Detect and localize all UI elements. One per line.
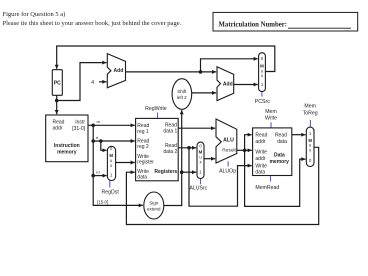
svg-text:memory: memory (57, 150, 77, 156)
svg-text:data 2: data 2 (163, 149, 177, 155)
svg-text:RegWrite: RegWrite (145, 106, 167, 112)
svg-text:[31-0]: [31-0] (72, 126, 85, 132)
svg-text:Data: Data (274, 153, 285, 159)
svg-text:Read: Read (53, 120, 65, 126)
svg-text:extend: extend (147, 207, 161, 212)
svg-text:reg 2: reg 2 (137, 144, 149, 150)
svg-text:Write: Write (255, 149, 267, 155)
svg-text:ToReg: ToReg (303, 110, 318, 116)
svg-text:data 1: data 1 (163, 129, 177, 135)
svg-text:PC: PC (54, 81, 61, 87)
svg-text:addr: addr (255, 156, 265, 162)
svg-text:Matriculation Number:: Matriculation Number: (219, 22, 288, 29)
svg-text:Add: Add (114, 68, 124, 74)
svg-text:Write: Write (265, 115, 277, 121)
svg-text:left 2: left 2 (177, 95, 187, 100)
svg-text:Shift: Shift (177, 89, 187, 94)
svg-text:4: 4 (91, 80, 94, 86)
svg-text:rt: rt (96, 135, 99, 140)
svg-text:Figure for Question 5 a): Figure for Question 5 a) (3, 11, 66, 18)
svg-text:ALUOp: ALUOp (219, 169, 236, 175)
svg-text:data: data (277, 139, 287, 145)
svg-text:data: data (255, 170, 265, 176)
svg-text:addr: addr (53, 126, 63, 132)
svg-text:data: data (137, 175, 147, 181)
svg-text:Mem: Mem (265, 109, 277, 115)
svg-text:Read: Read (275, 133, 287, 139)
svg-text:Please tie this sheet to your: Please tie this sheet to your answer boo… (3, 20, 182, 27)
svg-text:Registers: Registers (154, 169, 177, 175)
svg-text:Instr: Instr (75, 120, 85, 126)
svg-text:MemRead: MemRead (255, 185, 279, 191)
svg-text:register: register (137, 160, 154, 166)
svg-text:rd: rd (96, 170, 100, 175)
svg-text:Read: Read (255, 133, 267, 139)
svg-text:Write: Write (255, 163, 267, 169)
svg-text:Instruction: Instruction (54, 143, 80, 149)
svg-text:ALU: ALU (223, 138, 234, 144)
svg-text:reg 1: reg 1 (137, 129, 149, 135)
svg-text:Add: Add (223, 82, 233, 88)
svg-text:rs: rs (97, 119, 100, 124)
svg-text:Sign: Sign (149, 200, 159, 205)
svg-text:memory: memory (269, 159, 289, 165)
svg-text:[15-0]: [15-0] (97, 200, 108, 205)
svg-text:PCSrc: PCSrc (255, 99, 270, 105)
svg-text:addr: addr (255, 139, 265, 145)
svg-text:Result: Result (222, 148, 236, 154)
svg-text:RegDst: RegDst (102, 190, 120, 196)
svg-text:ALUSrc: ALUSrc (189, 185, 207, 191)
svg-text:Mem: Mem (304, 103, 316, 109)
